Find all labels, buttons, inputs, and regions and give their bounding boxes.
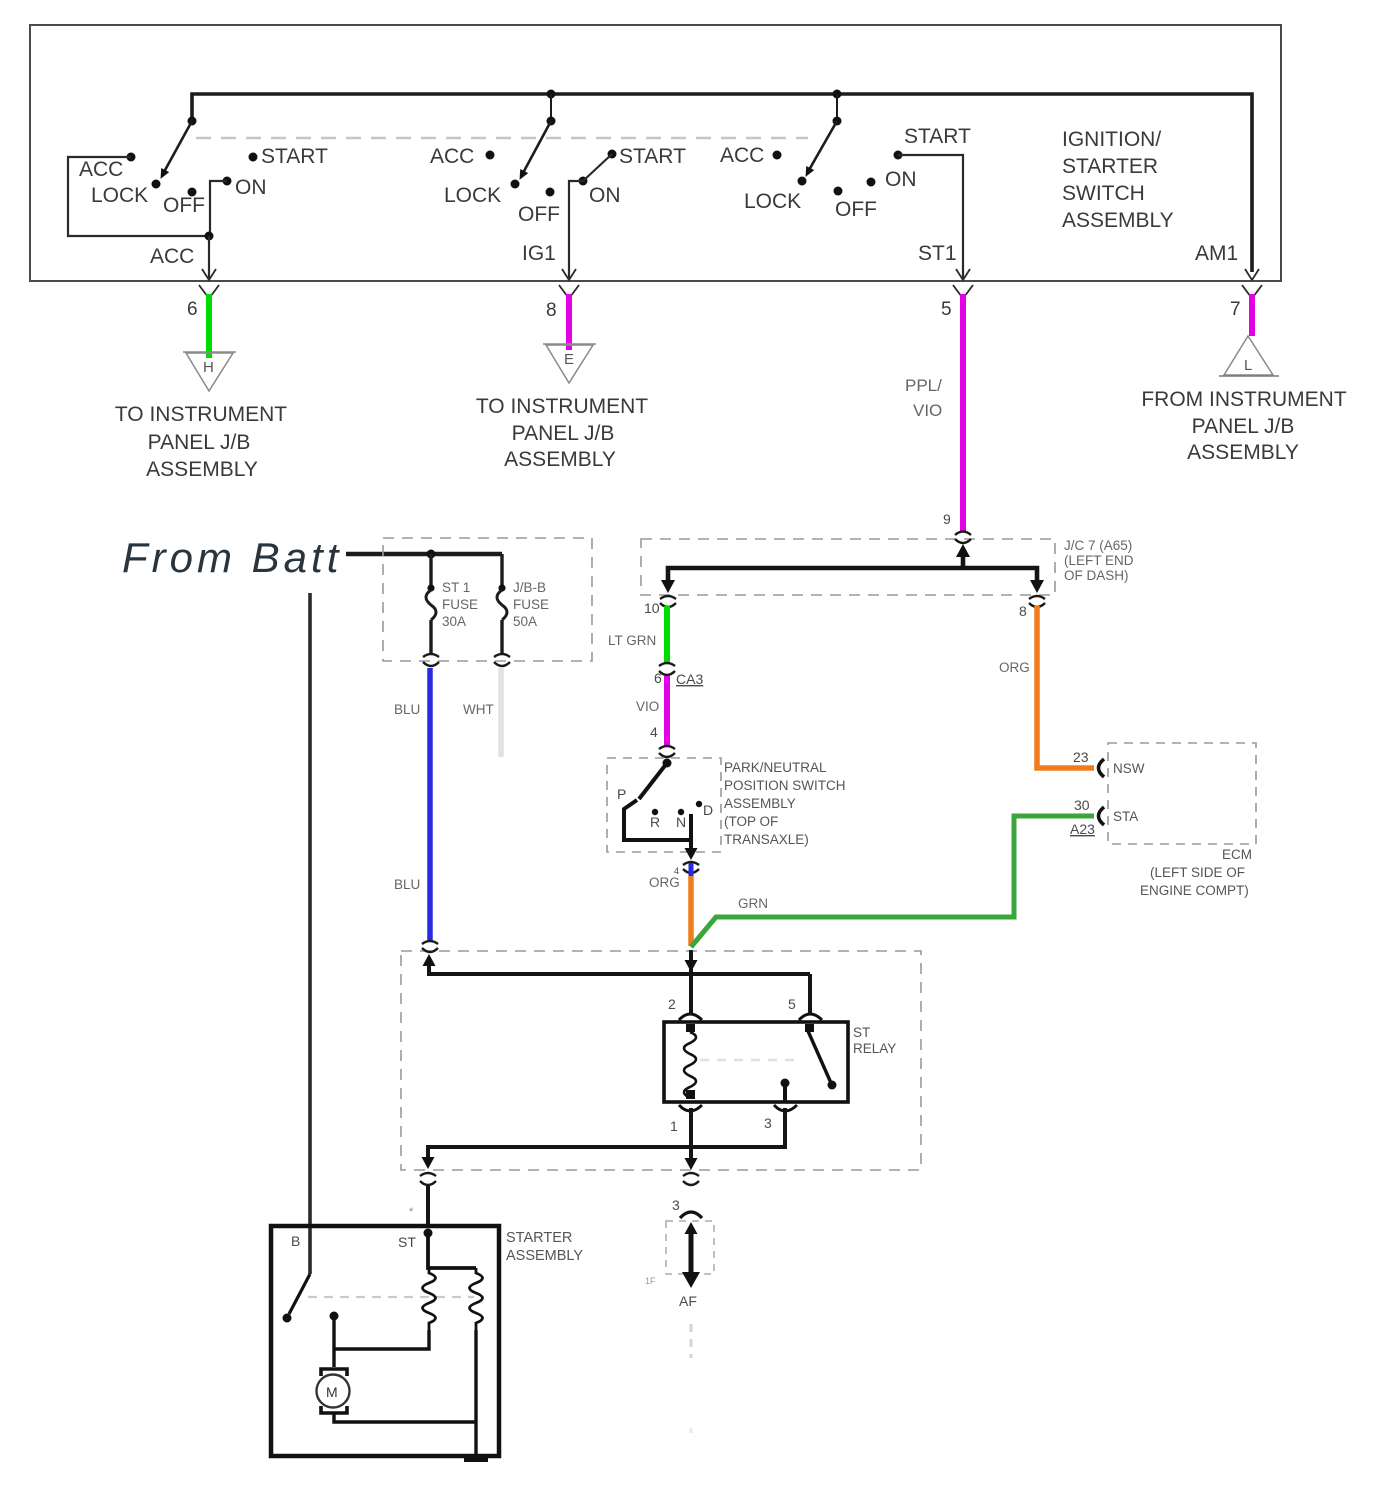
svg-text:PANEL J/B: PANEL J/B xyxy=(148,431,251,454)
pin 8 connector xyxy=(559,285,579,298)
pin 2 socket xyxy=(679,1014,702,1020)
wire 8 VIO xyxy=(566,294,572,350)
svg-text:GRN: GRN xyxy=(738,896,768,911)
svg-text:N: N xyxy=(676,814,686,830)
switch SW1 contacts xyxy=(127,153,136,162)
svg-text:NSW: NSW xyxy=(1113,761,1145,776)
wire to relay pin 5 xyxy=(808,974,812,1014)
starter assembly box xyxy=(271,1226,499,1456)
wire stub pin 9 xyxy=(961,552,966,568)
svg-text:(LEFT END: (LEFT END xyxy=(1064,553,1134,568)
svg-text:50A: 50A xyxy=(513,614,537,629)
svg-text:AM1: AM1 xyxy=(1195,242,1238,265)
label ignition/starter switch assembly xyxy=(1062,128,1174,232)
svg-text:START: START xyxy=(261,145,328,168)
svg-text:PANEL J/B: PANEL J/B xyxy=(512,422,615,445)
svg-text:4: 4 xyxy=(650,724,658,740)
node contact R xyxy=(652,809,658,815)
connector pin 4 P/N switch xyxy=(659,746,675,757)
connector splice to starter ST xyxy=(420,1173,436,1185)
switch SW1 arm xyxy=(164,121,192,172)
solenoid coil hold-in xyxy=(470,1268,483,1330)
svg-text:8: 8 xyxy=(546,300,557,321)
pin 6 connector xyxy=(199,285,219,298)
node ACC junction xyxy=(205,232,214,241)
fuse ST1 30A xyxy=(429,554,432,586)
svg-text:9: 9 xyxy=(943,511,951,527)
node ST entry xyxy=(424,1229,433,1238)
wire AF continuation dashed xyxy=(690,1324,693,1358)
motor M xyxy=(317,1375,350,1408)
svg-text:J/C 7 (A65): J/C 7 (A65) xyxy=(1064,538,1132,553)
ignition bus wire xyxy=(192,94,1252,272)
svg-text:VIO: VIO xyxy=(913,401,942,420)
ignition/starter switch assembly box xyxy=(30,25,1281,281)
svg-text:30: 30 xyxy=(1074,797,1090,813)
pin 23 NSW connector xyxy=(1099,759,1105,777)
connector splice CA3 xyxy=(659,663,675,675)
svg-text:FUSE: FUSE xyxy=(442,597,478,612)
svg-text:BLU: BLU xyxy=(394,877,420,892)
connector below fuse J/B-B xyxy=(494,654,510,666)
switch P/N arm xyxy=(639,763,667,799)
svg-text:ECM: ECM xyxy=(1222,847,1252,862)
connector below fuse ST1 xyxy=(423,654,439,666)
svg-text:PANEL J/B: PANEL J/B xyxy=(1192,415,1295,438)
svg-text:J/B-B: J/B-B xyxy=(513,580,546,595)
svg-text:ASSEMBLY: ASSEMBLY xyxy=(1062,209,1174,232)
wire GRN to ECM xyxy=(691,816,1094,947)
svg-text:WHT: WHT xyxy=(463,702,494,717)
svg-text:ACC: ACC xyxy=(720,144,764,167)
motor M terminal bottom xyxy=(321,1406,347,1413)
svg-text:TO INSTRUMENT: TO INSTRUMENT xyxy=(115,403,287,426)
svg-text:OF DASH): OF DASH) xyxy=(1064,568,1129,583)
wire VIO to P/N switch xyxy=(664,676,670,746)
node contact D xyxy=(696,801,702,807)
switch SW3 contacts xyxy=(773,151,782,160)
wire ON elbow SW1 xyxy=(210,181,227,235)
svg-text:*: * xyxy=(409,1206,414,1218)
switch SW3 pivot xyxy=(833,117,842,126)
wire 5 PPL/VIO xyxy=(960,294,966,532)
wire ACC output xyxy=(208,236,210,278)
svg-text:ORG: ORG xyxy=(649,875,680,890)
connector splice pin 10 xyxy=(660,596,676,607)
wire 6 GRN xyxy=(206,294,212,358)
svg-text:E: E xyxy=(564,351,574,368)
wire AF double arrow xyxy=(689,1229,694,1272)
wire LT GRN xyxy=(664,606,670,663)
svg-text:3: 3 xyxy=(764,1115,772,1131)
wire ST to solenoid coils xyxy=(428,1233,476,1268)
solenoid coil pull-in xyxy=(423,1268,436,1330)
svg-text:5: 5 xyxy=(941,299,952,320)
svg-text:FUSE: FUSE xyxy=(513,597,549,612)
switch SW2 arm xyxy=(523,121,551,173)
svg-text:R: R xyxy=(650,814,660,830)
svg-text:ON: ON xyxy=(235,176,267,199)
fuse J/B-B 50A xyxy=(500,554,503,586)
svg-text:H: H xyxy=(203,359,214,376)
wire ORG to ECM NSW xyxy=(1037,606,1094,768)
relay coil xyxy=(686,1024,695,1032)
connector E to instrument panel xyxy=(543,343,596,345)
svg-text:ON: ON xyxy=(589,184,621,207)
svg-text:1: 1 xyxy=(670,1118,678,1134)
svg-text:P: P xyxy=(617,786,626,802)
svg-text:OFF: OFF xyxy=(835,198,877,221)
svg-text:STARTER: STARTER xyxy=(506,1230,572,1246)
svg-text:B: B xyxy=(291,1233,300,1249)
svg-text:AF: AF xyxy=(679,1293,697,1309)
svg-text:ORG: ORG xyxy=(999,660,1030,675)
pin 5 connector xyxy=(953,285,973,298)
svg-text:LT GRN: LT GRN xyxy=(608,633,656,648)
ST relay box xyxy=(664,1022,848,1102)
svg-text:START: START xyxy=(904,125,971,148)
svg-text:6: 6 xyxy=(187,299,198,320)
pin 1 socket xyxy=(679,1105,702,1111)
wire motor to ground xyxy=(334,1413,476,1422)
motor M terminal top xyxy=(321,1369,347,1376)
svg-text:1F: 1F xyxy=(645,1276,656,1286)
svg-text:7: 7 xyxy=(1230,299,1241,320)
wire ORG to relay xyxy=(688,876,694,946)
svg-text:TRANSAXLE): TRANSAXLE) xyxy=(724,832,809,847)
svg-text:STA: STA xyxy=(1113,809,1138,824)
wire contact to motor xyxy=(332,1316,335,1367)
svg-text:(LEFT SIDE OF: (LEFT SIDE OF xyxy=(1150,865,1245,880)
svg-text:LOCK: LOCK xyxy=(744,190,801,213)
svg-text:(TOP OF: (TOP OF xyxy=(724,814,778,829)
svg-text:OFF: OFF xyxy=(163,194,205,217)
mechanical link dashed line xyxy=(196,137,808,140)
connector H to instrument panel xyxy=(183,351,236,353)
svg-text:VIO: VIO xyxy=(636,699,659,714)
svg-text:ACC: ACC xyxy=(430,145,474,168)
wire P/N output xyxy=(689,840,693,852)
node bus junction S3 xyxy=(833,90,842,99)
connector splice pin 8 xyxy=(1029,596,1045,607)
svg-text:M: M xyxy=(326,1384,338,1400)
svg-text:ASSEMBLY: ASSEMBLY xyxy=(146,458,258,481)
connector L from instrument panel xyxy=(1224,336,1273,375)
svg-text:30A: 30A xyxy=(442,614,466,629)
svg-text:5: 5 xyxy=(788,996,796,1012)
svg-text:D: D xyxy=(703,802,713,818)
wire ACC contact route SW1 xyxy=(68,157,209,236)
wire WHT xyxy=(498,668,504,757)
svg-text:From Batt: From Batt xyxy=(122,534,342,581)
svg-text:ST: ST xyxy=(398,1234,416,1250)
svg-text:CA3: CA3 xyxy=(676,671,703,687)
wire relay pin 1 down xyxy=(689,1108,693,1162)
svg-text:A23: A23 xyxy=(1070,821,1095,837)
connector splice to AF xyxy=(683,1173,699,1185)
wire ST1 output xyxy=(898,155,963,278)
wire 7 VIO xyxy=(1249,294,1255,336)
AF dashed box xyxy=(666,1221,714,1274)
svg-text:8: 8 xyxy=(1019,603,1027,619)
fuse block dashed box xyxy=(383,538,592,661)
switch SW3 arm xyxy=(809,121,837,170)
switch SW2 contacts xyxy=(486,151,495,160)
svg-text:RELAY: RELAY xyxy=(853,1041,896,1056)
svg-text:ASSEMBLY: ASSEMBLY xyxy=(724,796,796,811)
wire hold-in coil to ground xyxy=(474,1330,477,1454)
wire pull-in coil to motor node xyxy=(334,1330,429,1349)
svg-text:PPL/: PPL/ xyxy=(905,376,942,395)
node contact N xyxy=(678,809,684,815)
wire relay feed from BLU xyxy=(427,962,431,976)
svg-text:TO INSTRUMENT: TO INSTRUMENT xyxy=(476,395,648,418)
relay mechanical dashed link xyxy=(700,1059,798,1062)
park/neutral position switch dashed box xyxy=(607,758,721,852)
wire AM1 output arrow xyxy=(1245,269,1259,280)
svg-text:ST: ST xyxy=(853,1025,870,1040)
switch starter B arm xyxy=(289,1274,310,1314)
J/C 7 dashed box xyxy=(641,539,1055,595)
wire to relay pin 2 xyxy=(689,950,693,1014)
svg-text:23: 23 xyxy=(1073,749,1089,765)
svg-text:L: L xyxy=(1244,357,1252,374)
svg-text:ACC: ACC xyxy=(79,158,123,181)
svg-text:6: 6 xyxy=(654,670,662,686)
wire IG1 output xyxy=(569,181,583,278)
svg-text:ST 1: ST 1 xyxy=(442,580,470,595)
wire to starter ST terminal xyxy=(426,1186,430,1228)
switch SW1 pivot xyxy=(188,117,197,126)
svg-text:ACC: ACC xyxy=(150,245,194,268)
pin 30 STA connector xyxy=(1099,807,1105,825)
node bus junction S2 xyxy=(547,90,556,99)
svg-text:ENGINE COMPT): ENGINE COMPT) xyxy=(1140,883,1249,898)
svg-text:IGNITION/: IGNITION/ xyxy=(1062,128,1161,151)
svg-text:ASSEMBLY: ASSEMBLY xyxy=(506,1248,583,1264)
ground stub starter xyxy=(464,1454,488,1462)
wire P/N contact path xyxy=(624,800,691,840)
wire START to ON SW2 xyxy=(583,154,612,181)
svg-text:LOCK: LOCK xyxy=(444,184,501,207)
svg-text:BLU: BLU xyxy=(394,702,420,717)
svg-text:POSITION SWITCH: POSITION SWITCH xyxy=(724,778,846,793)
svg-text:SWITCH: SWITCH xyxy=(1062,182,1145,205)
wire relay pin 3 to starter xyxy=(428,1108,785,1160)
wire from battery horizontal xyxy=(346,552,502,557)
svg-text:2: 2 xyxy=(668,996,676,1012)
svg-text:10: 10 xyxy=(644,600,660,616)
wire BLU stub below P/N xyxy=(689,863,694,876)
svg-text:PARK/NEUTRAL: PARK/NEUTRAL xyxy=(724,760,827,775)
pin 3 socket xyxy=(774,1105,797,1111)
ECM dashed box xyxy=(1108,743,1256,844)
switch P/N pivot xyxy=(663,759,672,768)
connector splice wire5 to J/C7 xyxy=(955,532,971,544)
svg-text:LOCK: LOCK xyxy=(91,184,148,207)
connector below P/N switch xyxy=(683,862,699,873)
pin 5 socket xyxy=(799,1014,822,1020)
svg-text:ASSEMBLY: ASSEMBLY xyxy=(1187,441,1299,464)
wire from battery vertical xyxy=(308,593,312,1274)
svg-text:OFF: OFF xyxy=(518,203,560,226)
switch SW2 pivot xyxy=(547,117,556,126)
svg-text:IG1: IG1 xyxy=(522,242,556,265)
mechanical dashed link starter xyxy=(308,1296,474,1298)
node starter contact xyxy=(330,1312,339,1321)
svg-text:START: START xyxy=(619,145,686,168)
connector splice BLU to relay xyxy=(422,941,438,952)
relay area dashed box xyxy=(401,951,921,1170)
wire BLU xyxy=(427,668,433,940)
connector socket AF xyxy=(680,1212,702,1218)
svg-text:FROM INSTRUMENT: FROM INSTRUMENT xyxy=(1141,388,1346,411)
node fuse feed junction xyxy=(427,550,436,559)
svg-text:ON: ON xyxy=(885,168,917,191)
svg-text:STARTER: STARTER xyxy=(1062,155,1158,178)
pin 7 connector xyxy=(1242,285,1262,298)
junction connector J/C 7 bus xyxy=(668,568,1037,585)
svg-text:ASSEMBLY: ASSEMBLY xyxy=(504,448,616,471)
svg-text:ST1: ST1 xyxy=(918,242,957,265)
relay switch xyxy=(805,1024,814,1032)
svg-text:3: 3 xyxy=(672,1197,680,1213)
